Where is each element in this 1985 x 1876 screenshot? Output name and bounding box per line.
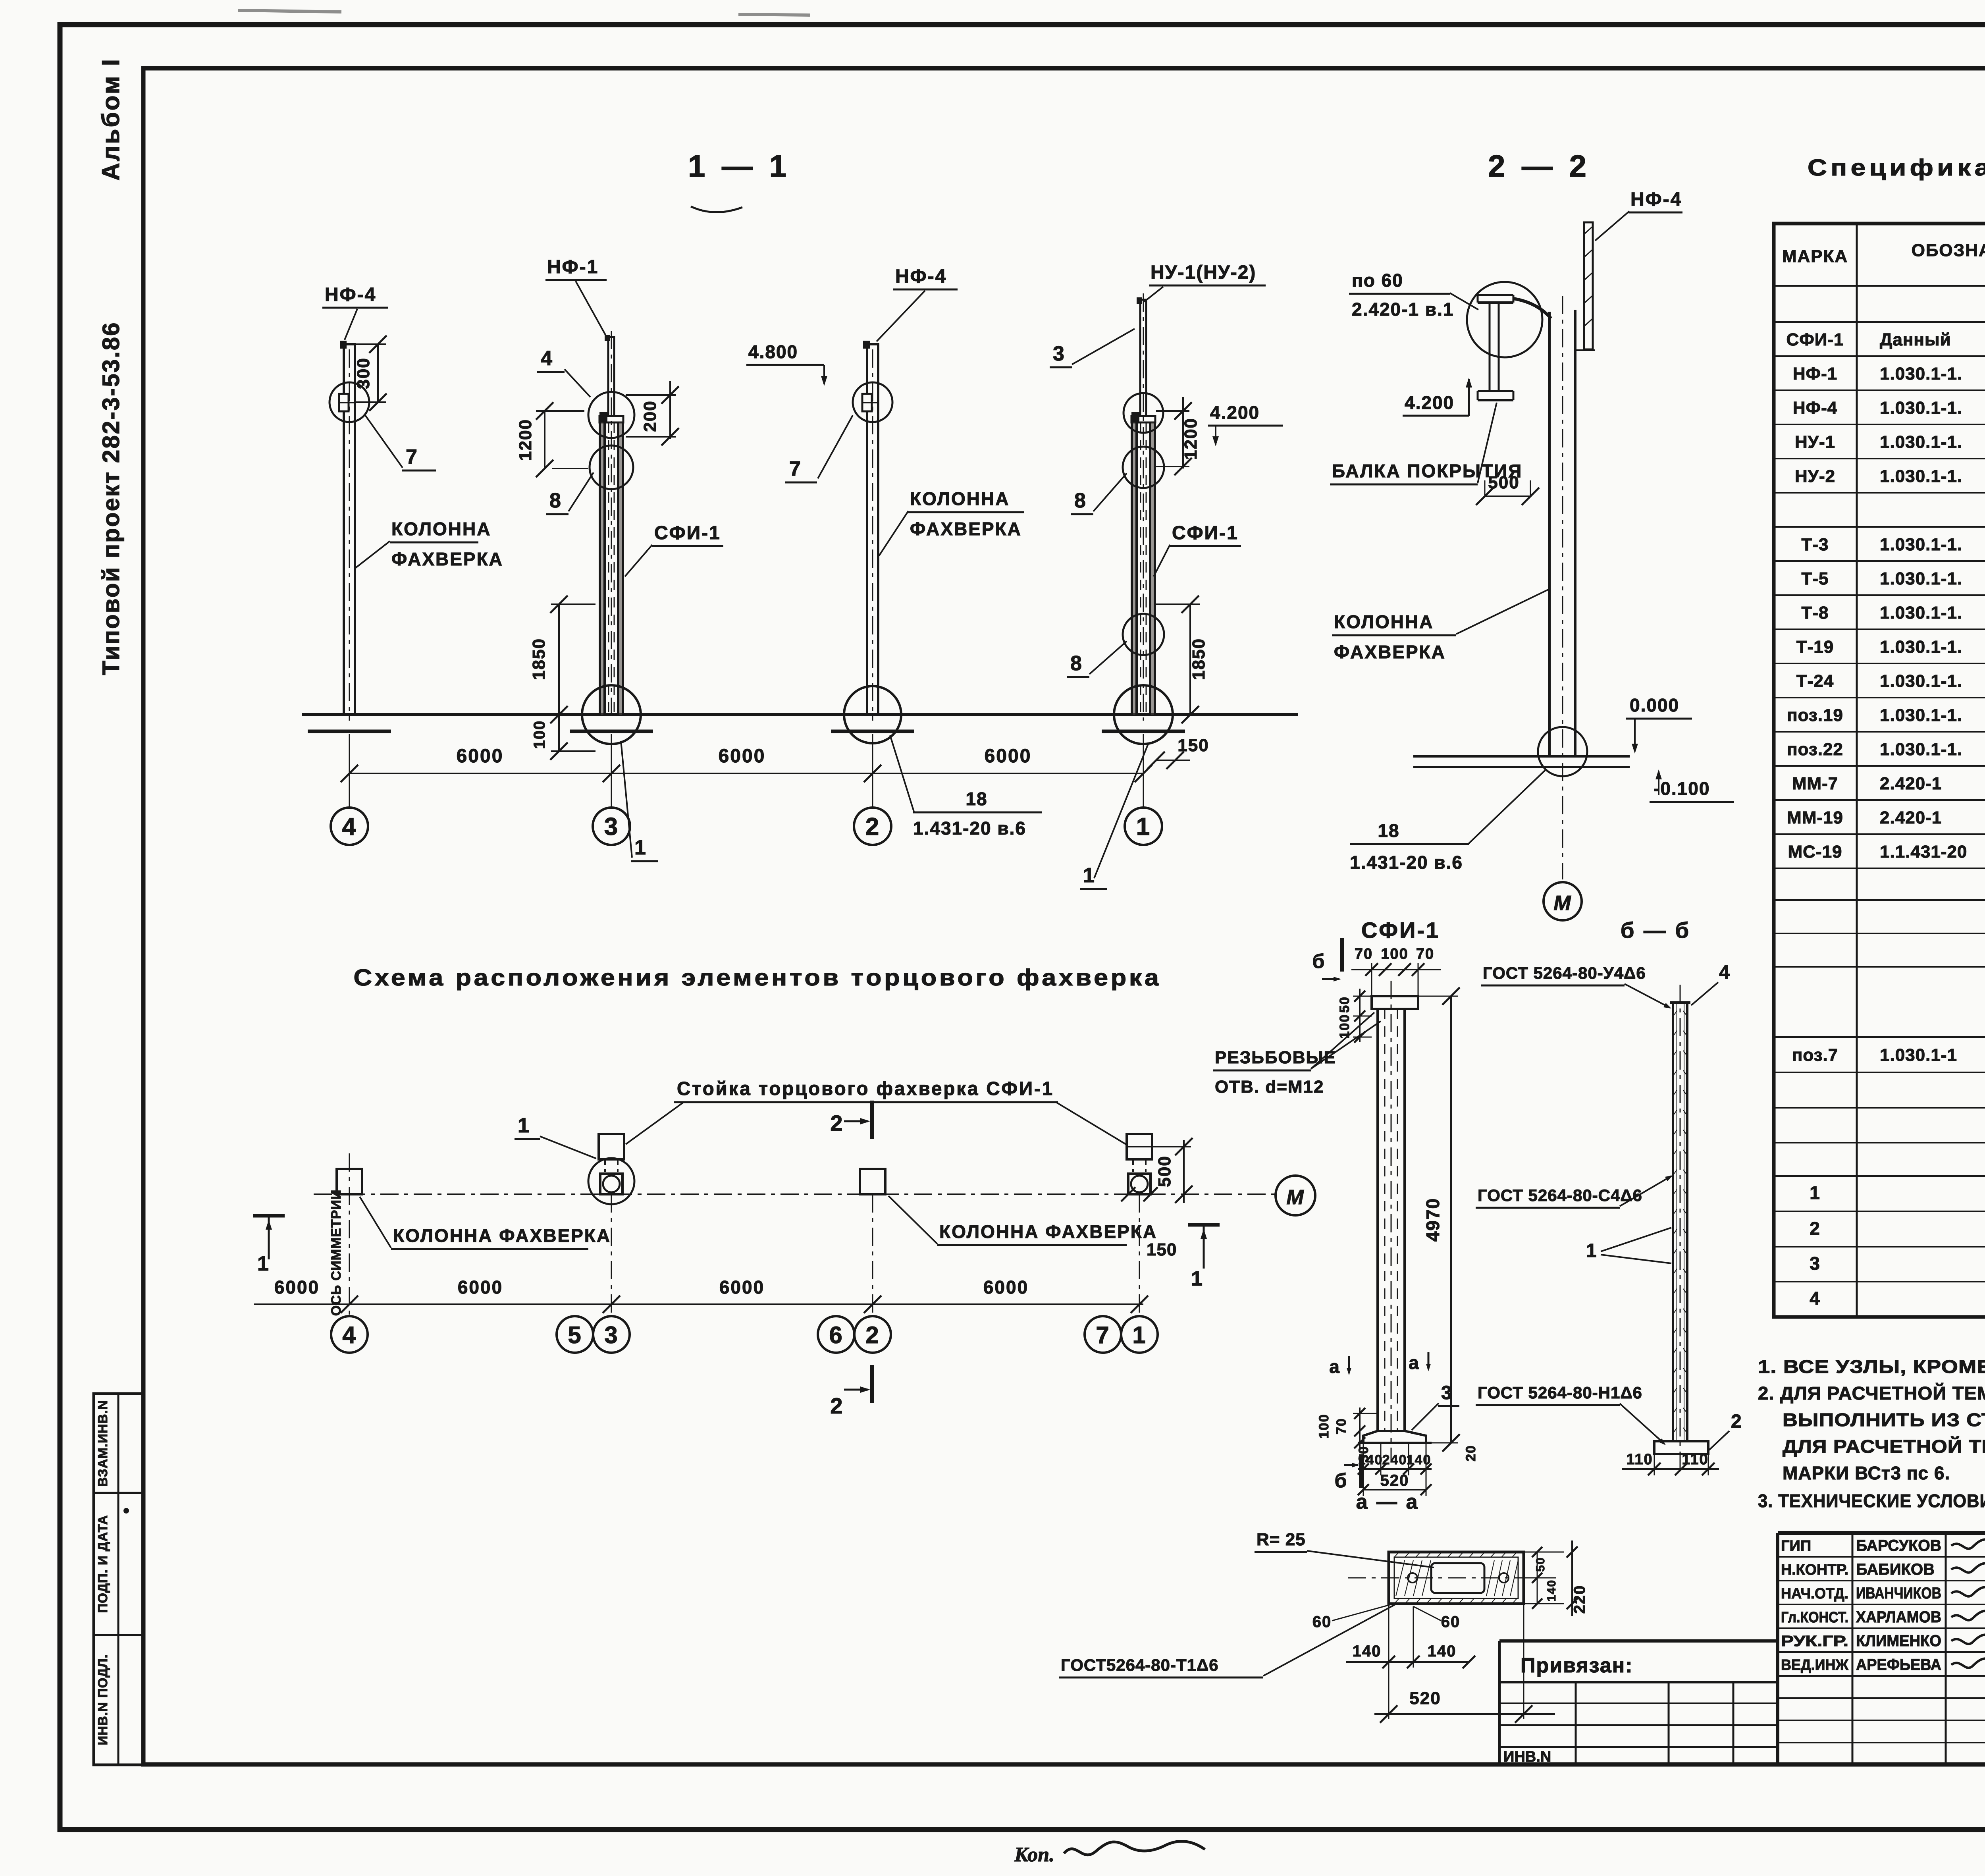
svg-text:8: 8 <box>1074 489 1087 512</box>
svg-text:НУ-1(НУ-2): НУ-1(НУ-2) <box>1151 262 1256 283</box>
svg-text:МАРКА: МАРКА <box>1782 247 1848 266</box>
svg-text:МАРКИ ВСт3 пс 6.: МАРКИ ВСт3 пс 6. <box>1783 1463 1950 1483</box>
svg-text:7: 7 <box>406 445 418 469</box>
svg-text:220: 220 <box>1571 1585 1588 1614</box>
svg-text:М: М <box>1286 1186 1304 1209</box>
svg-text:110: 110 <box>1626 1451 1653 1468</box>
svg-text:НАЧ.ОТД.: НАЧ.ОТД. <box>1781 1585 1848 1602</box>
svg-text:1200: 1200 <box>1181 418 1201 460</box>
svg-text:ФАХВЕРКА: ФАХВЕРКА <box>910 519 1022 539</box>
svg-text:1850: 1850 <box>529 638 549 680</box>
svg-text:6000: 6000 <box>719 746 766 767</box>
svg-text:8: 8 <box>1070 652 1083 675</box>
svg-text:60: 60 <box>1312 1613 1332 1631</box>
svg-text:7: 7 <box>789 457 802 480</box>
svg-text:НФ-1: НФ-1 <box>547 256 599 278</box>
svg-text:4.200: 4.200 <box>1210 402 1260 423</box>
svg-text:ВЕД.ИНЖ: ВЕД.ИНЖ <box>1781 1657 1849 1674</box>
svg-text:НФ-4: НФ-4 <box>1630 189 1682 210</box>
svg-text:Т-24: Т-24 <box>1796 671 1834 691</box>
svg-text:БАБИКОВ: БАБИКОВ <box>1856 1561 1935 1578</box>
svg-text:1.030.1-1.: 1.030.1-1. <box>1880 603 1962 623</box>
svg-text:1.030.1-1.: 1.030.1-1. <box>1880 706 1962 725</box>
svg-text:1. ВСЕ УЗЛЫ, КРОМЕ 60 И 18,: 1. ВСЕ УЗЛЫ, КРОМЕ 60 И 18, СМОТР. СЕРИЮ… <box>1758 1356 1985 1377</box>
svg-text:1.030.1-1.: 1.030.1-1. <box>1880 432 1962 452</box>
svg-text:140: 140 <box>1428 1643 1457 1660</box>
svg-text:1.030.1-1.: 1.030.1-1. <box>1880 467 1962 486</box>
svg-text:4.200: 4.200 <box>1405 392 1454 413</box>
svg-text:0.000: 0.000 <box>1630 695 1679 715</box>
svg-text:140: 140 <box>1545 1579 1558 1602</box>
svg-text:ИНВ.N ПОДЛ.: ИНВ.N ПОДЛ. <box>95 1654 110 1745</box>
svg-text:1.1.431-20: 1.1.431-20 <box>1880 842 1967 862</box>
svg-text:1: 1 <box>634 836 647 859</box>
svg-text:1.030.1-1.: 1.030.1-1. <box>1880 364 1962 384</box>
svg-text:1.030.1-1.: 1.030.1-1. <box>1880 740 1962 759</box>
svg-text:4: 4 <box>1810 1288 1821 1309</box>
svg-text:Т-8: Т-8 <box>1802 603 1829 623</box>
svg-text:НФ-4: НФ-4 <box>325 284 376 305</box>
svg-text:2.420-1: 2.420-1 <box>1880 774 1942 793</box>
svg-text:6000: 6000 <box>983 1277 1029 1298</box>
svg-text:а — а: а — а <box>1356 1490 1419 1514</box>
svg-text:50: 50 <box>1337 996 1352 1013</box>
svg-text:ГОСТ5264-80-Т1Δ6: ГОСТ5264-80-Т1Δ6 <box>1061 1656 1219 1674</box>
svg-text:7: 7 <box>1096 1322 1110 1348</box>
svg-text:Альбом I: Альбом I <box>97 58 125 181</box>
svg-text:ОБОЗНАЧЕНИЕ: ОБОЗНАЧЕНИЕ <box>1912 241 1985 260</box>
svg-text:б: б <box>1335 1469 1348 1492</box>
svg-text:1: 1 <box>257 1252 270 1275</box>
svg-text:Гл.КОНСТ.: Гл.КОНСТ. <box>1781 1609 1848 1626</box>
svg-text:520: 520 <box>1409 1689 1441 1708</box>
svg-text:1: 1 <box>1191 1267 1203 1290</box>
svg-text:1.431-20 в.6: 1.431-20 в.6 <box>1350 852 1463 873</box>
svg-text:500: 500 <box>1155 1155 1174 1187</box>
svg-text:Данный: Данный <box>1880 330 1951 349</box>
svg-text:50: 50 <box>1534 1557 1547 1571</box>
svg-text:поз.7: поз.7 <box>1792 1045 1838 1065</box>
svg-text:3: 3 <box>604 1322 618 1348</box>
svg-text:Коп.: Коп. <box>1014 1843 1054 1866</box>
svg-text:60: 60 <box>1441 1613 1461 1631</box>
svg-text:ФАХВЕРКА: ФАХВЕРКА <box>391 549 503 569</box>
svg-text:2 — 2: 2 — 2 <box>1488 148 1590 183</box>
svg-text:ВЗАМ.ИНВ.N: ВЗАМ.ИНВ.N <box>95 1400 110 1487</box>
svg-text:1850: 1850 <box>1189 638 1208 680</box>
svg-text:ОТВ. d=М12: ОТВ. d=М12 <box>1215 1077 1324 1097</box>
svg-text:300: 300 <box>354 357 373 389</box>
svg-text:6000: 6000 <box>458 1277 503 1298</box>
svg-text:БАРСУКОВ: БАРСУКОВ <box>1856 1537 1941 1554</box>
svg-text:а: а <box>1409 1352 1420 1373</box>
svg-text:2. ДЛЯ РАСЧЕТНОЙ ТЕМПЕРАТУРЫ: 2. ДЛЯ РАСЧЕТНОЙ ТЕМПЕРАТУРЫ ВОЗДУХА ДО-… <box>1758 1383 1985 1404</box>
svg-text:ММ-19: ММ-19 <box>1787 808 1843 827</box>
svg-text:ГОСТ 5264-80-С4Δ6: ГОСТ 5264-80-С4Δ6 <box>1478 1186 1642 1205</box>
svg-text:-0.100: -0.100 <box>1654 778 1710 799</box>
svg-text:КОЛОННА ФАХВЕРКА: КОЛОННА ФАХВЕРКА <box>939 1221 1157 1242</box>
svg-text:1: 1 <box>1810 1182 1821 1203</box>
svg-text:Типовой проект 282-3-53.86: Типовой проект 282-3-53.86 <box>98 321 124 675</box>
svg-text:б: б <box>1312 950 1326 972</box>
svg-text:3: 3 <box>1053 342 1065 365</box>
svg-text:4: 4 <box>541 347 553 370</box>
svg-text:поз.19: поз.19 <box>1787 706 1843 725</box>
svg-text:ГИП: ГИП <box>1781 1538 1811 1554</box>
svg-text:20: 20 <box>1463 1445 1478 1461</box>
svg-text:2: 2 <box>1810 1218 1821 1239</box>
svg-text:2: 2 <box>865 813 880 841</box>
svg-text:2: 2 <box>1731 1411 1742 1432</box>
svg-text:2: 2 <box>830 1393 843 1418</box>
svg-text:4.800: 4.800 <box>748 341 798 362</box>
svg-text:1 — 1: 1 — 1 <box>688 148 790 183</box>
svg-text:2.420-1: 2.420-1 <box>1880 808 1942 827</box>
svg-text:5: 5 <box>568 1322 582 1348</box>
svg-text:Схема расположения элементов: Схема расположения элементов торцового ф… <box>354 965 1162 991</box>
svg-text:1.030.1-1.: 1.030.1-1. <box>1880 569 1962 588</box>
svg-text:4: 4 <box>342 813 357 841</box>
svg-text:3. ТЕХНИЧЕСКИЕ УСЛОВИЯ НА И: 3. ТЕХНИЧЕСКИЕ УСЛОВИЯ НА ИЗГОТОВЛЕНИЕ С… <box>1758 1490 1985 1511</box>
svg-text:18: 18 <box>1378 820 1399 841</box>
svg-text:Привязан:: Привязан: <box>1521 1654 1633 1677</box>
svg-text:6000: 6000 <box>985 746 1032 767</box>
svg-text:1: 1 <box>1132 1322 1146 1348</box>
svg-text:ХАРЛАМОВ: ХАРЛАМОВ <box>1856 1608 1941 1626</box>
svg-text:НФ-1: НФ-1 <box>1793 364 1837 384</box>
svg-text:по 60: по 60 <box>1352 270 1403 291</box>
svg-text:6: 6 <box>829 1322 843 1348</box>
svg-text:ГОСТ 5264-80-У4Δ6: ГОСТ 5264-80-У4Δ6 <box>1483 964 1646 982</box>
svg-text:1.431-20 в.6: 1.431-20 в.6 <box>913 818 1026 839</box>
svg-text:140: 140 <box>1407 1452 1432 1467</box>
svg-text:ГОСТ 5264-80-Н1Δ6: ГОСТ 5264-80-Н1Δ6 <box>1478 1383 1642 1402</box>
svg-text:2.420-1 в.1: 2.420-1 в.1 <box>1352 299 1454 320</box>
svg-text:3: 3 <box>1810 1253 1821 1274</box>
svg-text:СФИ-1: СФИ-1 <box>1361 918 1440 943</box>
svg-text:3: 3 <box>1441 1382 1453 1404</box>
svg-text:1.030.1-1.: 1.030.1-1. <box>1880 637 1962 657</box>
svg-text:НФ-4: НФ-4 <box>1793 398 1837 418</box>
svg-text:100: 100 <box>1316 1414 1332 1439</box>
svg-text:1.030.1-1.: 1.030.1-1. <box>1880 398 1962 418</box>
svg-text:КОЛОННА: КОЛОННА <box>1334 611 1434 632</box>
svg-text:1: 1 <box>1136 813 1151 841</box>
svg-text:Стойка торцового фахверка СФ: Стойка торцового фахверка СФИ-1 <box>677 1078 1054 1099</box>
svg-text:ВЫПОЛНИТЬ ИЗ СТАЛИ МАРКИ: ВЫПОЛНИТЬ ИЗ СТАЛИ МАРКИ ВСт3кп2. <box>1783 1409 1985 1430</box>
svg-text:140: 140 <box>1358 1452 1383 1467</box>
svg-text:6000: 6000 <box>719 1277 765 1298</box>
svg-text:140: 140 <box>1353 1643 1382 1660</box>
svg-text:СФИ-1: СФИ-1 <box>654 523 721 544</box>
svg-text:70: 70 <box>1334 1418 1349 1434</box>
svg-text:2: 2 <box>865 1322 879 1348</box>
svg-text:ИНВ.N: ИНВ.N <box>1503 1749 1551 1765</box>
svg-text:3: 3 <box>604 813 619 841</box>
svg-text:ММ-7: ММ-7 <box>1792 774 1838 793</box>
svg-text:КЛИМЕНКО: КЛИМЕНКО <box>1856 1632 1941 1650</box>
svg-text:АРЕФЬЕВА: АРЕФЬЕВА <box>1856 1656 1941 1674</box>
svg-text:1: 1 <box>518 1114 530 1137</box>
svg-text:200: 200 <box>640 400 660 432</box>
svg-text:70: 70 <box>1355 946 1373 962</box>
svg-text:4970: 4970 <box>1422 1198 1443 1242</box>
svg-text:100: 100 <box>531 720 548 749</box>
svg-text:СФИ-1: СФИ-1 <box>1172 523 1239 544</box>
svg-text:РУК.ГР.: РУК.ГР. <box>1781 1633 1848 1650</box>
svg-text:Н.КОНТР.: Н.КОНТР. <box>1781 1562 1848 1578</box>
svg-text:НФ-4: НФ-4 <box>895 266 947 287</box>
svg-text:КОЛОННА: КОЛОННА <box>910 488 1010 509</box>
svg-text:240: 240 <box>1382 1452 1407 1467</box>
svg-text:ОСЬ СИММЕТРИИ: ОСЬ СИММЕТРИИ <box>329 1190 344 1316</box>
svg-text:КОЛОННА ФАХВЕРКА: КОЛОННА ФАХВЕРКА <box>393 1225 611 1246</box>
svg-text:а: а <box>1329 1356 1340 1377</box>
svg-text:6000: 6000 <box>457 746 504 767</box>
svg-text:поз.22: поз.22 <box>1787 740 1843 759</box>
svg-text:4: 4 <box>1719 962 1731 983</box>
svg-text:520: 520 <box>1380 1472 1409 1489</box>
svg-text:1.030.1-1.: 1.030.1-1. <box>1880 671 1962 691</box>
svg-text:Т-19: Т-19 <box>1796 637 1834 657</box>
svg-text:НУ-2: НУ-2 <box>1795 467 1835 486</box>
svg-text:2: 2 <box>830 1111 843 1136</box>
svg-text:1.030.1-1: 1.030.1-1 <box>1880 1045 1957 1065</box>
svg-text:1: 1 <box>1586 1240 1598 1261</box>
svg-text:70: 70 <box>1416 946 1434 962</box>
svg-text:1.030.1-1.: 1.030.1-1. <box>1880 535 1962 554</box>
svg-text:ДЛЯ РАСЧЕТНОЙ ТЕМПЕРАТУРЫ: ДЛЯ РАСЧЕТНОЙ ТЕМПЕРАТУРЫ ВОЗДУХА ОТ-30°… <box>1783 1436 1985 1457</box>
svg-text:150: 150 <box>1147 1240 1177 1259</box>
svg-text:Спецификация элементов крепл: Спецификация элементов крепления <box>1808 155 1985 181</box>
svg-text:100: 100 <box>1381 946 1408 962</box>
svg-text:СФИ-1: СФИ-1 <box>1786 330 1844 349</box>
svg-text:Т-3: Т-3 <box>1802 535 1829 554</box>
svg-text:110: 110 <box>1682 1451 1708 1468</box>
svg-text:1: 1 <box>1083 864 1095 887</box>
svg-text:R= 25: R= 25 <box>1257 1530 1306 1549</box>
svg-text:18: 18 <box>966 789 987 809</box>
svg-text:М: М <box>1553 892 1571 915</box>
svg-text:Т-5: Т-5 <box>1802 569 1829 588</box>
svg-text:НУ-1: НУ-1 <box>1795 432 1835 452</box>
svg-text:ИВАНЧИКОВ: ИВАНЧИКОВ <box>1856 1585 1941 1602</box>
svg-text:б — б: б — б <box>1621 918 1690 943</box>
svg-text:КОЛОННА: КОЛОННА <box>391 519 491 539</box>
svg-text:МС-19: МС-19 <box>1788 842 1842 862</box>
svg-text:4: 4 <box>342 1322 356 1348</box>
svg-text:1200: 1200 <box>516 419 535 461</box>
svg-text:ФАХВЕРКА: ФАХВЕРКА <box>1334 642 1446 662</box>
svg-text:ПОДП. И ДАТА: ПОДП. И ДАТА <box>95 1515 110 1613</box>
svg-text:8: 8 <box>549 489 562 512</box>
svg-text:6000: 6000 <box>274 1277 320 1298</box>
